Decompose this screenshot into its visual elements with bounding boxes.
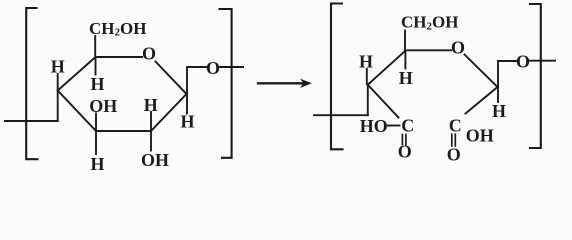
svg-text:O: O (142, 44, 156, 64)
svg-text:H: H (492, 101, 506, 121)
wire: bond C5 down to H (right unit) (404, 51, 406, 69)
wire: ring bond C3 to C4 (up-left diagonal) (58, 91, 96, 132)
wire: ring bond C1 to C2 (down-left diagonal) (151, 94, 187, 131)
wire: bond C5 to C4 (right unit) (368, 51, 405, 85)
wire: bond CH2OH to C5 (right unit) (404, 31, 406, 51)
reaction arrow (258, 82, 303, 84)
wire: glycosidic bond O out through right bracket (right unit) (530, 60, 555, 62)
wire: bond C5 to H below (95, 58, 97, 75)
svg-text:OH: OH (89, 96, 117, 116)
svg-text:O: O (447, 145, 461, 165)
wire: glycosidic riser up from C1 (right unit) (497, 61, 499, 87)
wire: bond ring O to C1 (right unit) (465, 55, 498, 88)
wire: bond C3 down to H (95, 132, 97, 154)
wire: bond C2 down to OH (150, 132, 152, 151)
wire: glycosidic bond O out through right bracket (220, 66, 243, 68)
svg-text:CH2OH: CH2OH (89, 19, 146, 39)
wire: bond H down to C2 (150, 112, 152, 130)
svg-text:O: O (398, 142, 412, 162)
dash bond HO to C of left carboxyl (right unit) (388, 125, 400, 127)
wire: ring bond C2 to C3 (bottom edge) (96, 130, 151, 132)
double bond C=O of right carboxyl (right unit) (451, 134, 453, 146)
wire: bond C4 to carboxyl carbon (right unit) (368, 85, 399, 118)
wire: glycosidic bond C1 to O (right unit) (498, 60, 516, 62)
wire: bond C1 to carboxyl carbon (right unit) (466, 87, 498, 114)
wire: exit bond down from C4 (right unit) (367, 85, 369, 115)
svg-text:H: H (144, 95, 158, 115)
wire: bond H down to C4 (right unit) (366, 69, 368, 84)
left bracket of right repeating unit (331, 4, 343, 150)
double bond C=O of left carboxyl (right unit) (401, 135, 403, 145)
wire: exit bond to left edge through bracket (5, 120, 58, 122)
right bracket of left repeating unit (220, 9, 232, 158)
svg-text:H: H (180, 111, 194, 131)
wire: bond CH2OH to C5 (94, 36, 96, 56)
wire: bond H to C4-left vertex (57, 74, 59, 89)
wire: ring bond O to C1 (down-right diagonal) (156, 62, 187, 95)
wire: bond C1 down to H (right unit) (497, 88, 499, 102)
svg-text:H: H (51, 57, 65, 77)
svg-text:H: H (90, 74, 104, 94)
wire: bond C1 down to H (186, 94, 188, 114)
wire: glycosidic bond C1 to O (187, 66, 206, 68)
svg-text:OH: OH (466, 126, 494, 146)
svg-text:H: H (90, 154, 104, 174)
svg-text:C: C (449, 116, 462, 136)
wire: exit bond to left through bracket (right unit) (314, 114, 368, 116)
svg-text:H: H (399, 68, 413, 88)
left bracket of left repeating unit (26, 8, 37, 159)
wire: glycosidic riser up from C1 (186, 67, 188, 94)
svg-text:H: H (359, 51, 373, 71)
svg-text:OH: OH (141, 150, 169, 170)
right bracket of right repeating unit (530, 4, 541, 148)
svg-text:O: O (451, 38, 465, 58)
svg-text:O: O (516, 51, 530, 71)
svg-text:O: O (206, 58, 220, 78)
wire: bond OH down to C3 (95, 114, 97, 131)
wire: exit bond down from C4-left vertex (57, 91, 59, 122)
svg-text:C: C (401, 115, 414, 135)
wire: ring bond C5 to ring O (top edge) (98, 56, 143, 58)
svg-text:CH2OH: CH2OH (401, 13, 458, 33)
wire: bond C5 to ring O (right unit) (407, 49, 451, 51)
svg-text:HO: HO (360, 116, 388, 136)
wire: ring bond C4 to C5 (up-right diagonal) (58, 57, 96, 91)
